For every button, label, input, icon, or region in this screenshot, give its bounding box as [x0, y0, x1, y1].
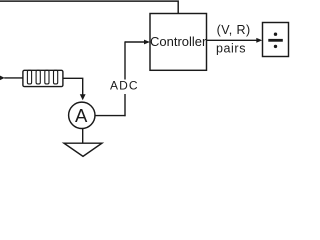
resistor R1 heating element	[23, 70, 63, 86]
divider box	[263, 23, 289, 57]
svg-text:Controller: Controller	[150, 34, 207, 49]
ground	[64, 143, 102, 156]
svg-text:A: A	[75, 105, 88, 126]
wire top supply bus	[0, 1, 178, 13]
wire ADC vertical upper segment	[124, 41, 126, 79]
svg-text:(V, R): (V, R)	[217, 23, 251, 37]
controller box U1	[150, 14, 207, 71]
svg-text:ADC: ADC	[110, 78, 139, 92]
divide symbol	[268, 33, 283, 49]
wire controller to divider with arrowhead	[207, 38, 263, 43]
svg-text:pairs: pairs	[216, 41, 246, 55]
wire ADC to controller with arrowhead	[125, 40, 150, 45]
wire resistor to ammeter with arrowhead	[63, 78, 86, 100]
wire ammeter to ground	[82, 129, 84, 144]
wire ADC vertical lower segment	[124, 94, 126, 116]
input arrow into resistor	[0, 75, 23, 80]
ammeter A1	[69, 102, 95, 128]
wire ammeter to ADC	[95, 115, 125, 117]
